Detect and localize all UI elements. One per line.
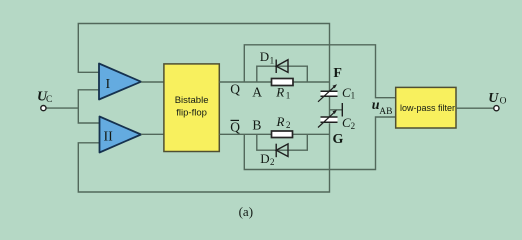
svg-text:Q: Q <box>230 81 240 96</box>
svg-text:C: C <box>46 95 52 105</box>
wire: Q row from flip-flop to R1 <box>219 81 329 83</box>
diode D2 <box>276 144 288 158</box>
wire: filter output to Uo terminal <box>456 107 494 109</box>
wire: D2 bypass branch <box>257 134 308 150</box>
svg-text:1: 1 <box>351 91 356 101</box>
label C2 <box>342 115 355 131</box>
node A <box>252 84 262 99</box>
wire: C1-C2 midpoint with tap terminal <box>330 97 343 117</box>
svg-text:2: 2 <box>351 121 356 131</box>
svg-text:A: A <box>252 84 262 99</box>
svg-text:O: O <box>500 97 507 107</box>
caption (a) <box>239 204 253 219</box>
label R2 <box>276 114 291 130</box>
svg-text:II: II <box>104 130 114 145</box>
svg-text:U: U <box>488 91 499 106</box>
resistor R2 <box>272 131 293 138</box>
label U_O <box>488 91 506 106</box>
wire: amp II feedback loop (bottom, from node G) <box>78 123 329 192</box>
svg-text:Bistable: Bistable <box>175 95 209 106</box>
svg-text:B: B <box>252 118 261 133</box>
label U_C <box>37 90 52 105</box>
svg-text:F: F <box>333 66 342 81</box>
diode D1 <box>276 60 288 74</box>
svg-text:D: D <box>260 151 269 166</box>
svg-text:1: 1 <box>270 55 275 65</box>
op-amp comparator II <box>100 117 142 153</box>
node F <box>333 66 342 81</box>
svg-text:Q: Q <box>230 120 240 135</box>
wire: D1 bypass branch <box>257 66 308 82</box>
svg-text:2: 2 <box>286 120 291 130</box>
label u_AB <box>372 98 393 117</box>
label D2 <box>260 151 274 167</box>
wire: amp I feedback loop (top, from node F) <box>78 24 329 91</box>
op-amp comparator I <box>99 64 141 100</box>
svg-text:2: 2 <box>270 157 275 167</box>
svg-text:R: R <box>276 114 285 129</box>
svg-text:1: 1 <box>286 91 291 101</box>
node G <box>333 132 344 147</box>
svg-text:flip-flop: flip-flop <box>176 108 207 119</box>
label R1 <box>275 85 290 101</box>
svg-text:(a): (a) <box>239 204 253 219</box>
terminal Uo <box>494 106 499 111</box>
label C1 <box>342 85 355 101</box>
svg-text:R: R <box>275 85 284 100</box>
capacitor C1 (variable) <box>318 84 338 102</box>
low-pass filter block U2 <box>396 87 456 128</box>
bistable flip-flop block U1 <box>164 64 219 152</box>
label Qbar output <box>230 120 240 135</box>
resistor R1 <box>272 79 294 86</box>
capacitor C2 (variable) <box>318 110 338 128</box>
wire: amp II output to flip-flop <box>141 133 164 135</box>
label D1 <box>260 49 274 66</box>
wire: amp I output to flip-flop <box>141 81 164 83</box>
svg-text:AB: AB <box>379 107 392 117</box>
svg-text:G: G <box>333 132 344 147</box>
wire: net A to low-pass filter (inner top loop) <box>244 45 395 98</box>
svg-text:I: I <box>106 77 111 92</box>
label Q output <box>230 81 240 96</box>
terminal Uc <box>41 106 46 111</box>
wire: Qbar row from flip-flop to R2 <box>219 133 329 135</box>
svg-text:D: D <box>260 49 269 64</box>
node B <box>252 118 261 133</box>
svg-text:low-pass filter: low-pass filter <box>400 103 455 113</box>
wire: net B to low-pass filter (inner bottom loop) <box>244 117 395 170</box>
wire: Uc input to amp I and amp II inputs <box>46 90 100 123</box>
